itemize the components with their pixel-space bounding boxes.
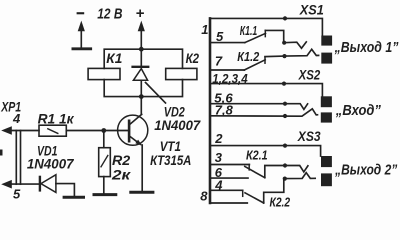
svg-text:1: 1 <box>201 22 208 37</box>
node base junction <box>101 128 106 133</box>
jack XS1 upper spring <box>284 42 306 48</box>
svg-text:ХS2: ХS2 <box>298 66 321 82</box>
svg-text:1N4007: 1N4007 <box>154 117 201 133</box>
wire relay top rail <box>104 49 182 68</box>
wire pin4 to R1 <box>11 130 40 132</box>
svg-text:К2.1: К2.1 <box>246 148 268 163</box>
plus terminal arrow <box>140 30 142 50</box>
pin 8 line <box>210 202 247 204</box>
wire collector <box>140 97 142 115</box>
svg-text:К2.2: К2.2 <box>270 194 291 208</box>
resistor R2 <box>103 131 105 148</box>
svg-text:1N4007: 1N4007 <box>27 155 75 171</box>
scan speck left edge <box>0 150 3 156</box>
wire emitter <box>141 145 143 191</box>
svg-text:„Выход 2”: „Выход 2” <box>334 163 398 179</box>
svg-text:R1 1к: R1 1к <box>38 111 75 127</box>
relay coil K2 <box>166 68 197 79</box>
jack XS2 upper spring <box>210 104 308 110</box>
svg-text:12 В: 12 В <box>97 6 122 23</box>
svg-text:7: 7 <box>215 54 223 69</box>
resistor R1 <box>39 125 66 136</box>
node top (+) junction <box>139 47 144 52</box>
svg-text:2: 2 <box>214 131 223 146</box>
wire VD1 to ground <box>56 184 75 196</box>
jack XS3 lower spring <box>285 173 315 179</box>
power label minus <box>77 12 85 14</box>
svg-text:5: 5 <box>216 29 224 44</box>
svg-text:„Выход 1”: „Выход 1” <box>334 40 399 56</box>
diode VD1 <box>39 177 41 191</box>
node collector junction <box>139 94 144 99</box>
wire relay bottom rail <box>104 80 182 97</box>
wire line 1 to XS1 <box>210 18 322 35</box>
svg-text:5: 5 <box>13 187 21 202</box>
svg-text:+: + <box>136 5 145 22</box>
leader line VD2 <box>146 83 166 104</box>
svg-text:„Вход”: „Вход” <box>335 103 382 119</box>
minus terminal arrow <box>80 30 82 48</box>
svg-text:4: 4 <box>12 111 21 126</box>
diode VD2 <box>140 49 142 66</box>
svg-text:К2: К2 <box>186 50 200 66</box>
svg-text:8: 8 <box>200 189 208 204</box>
svg-text:ХS3: ХS3 <box>297 128 321 144</box>
wire R1 to base <box>66 130 128 132</box>
wire R2 to ground <box>103 177 105 194</box>
transistor VT1 <box>118 115 148 145</box>
svg-text:3: 3 <box>215 150 223 165</box>
jack XS2 lower spring <box>210 109 318 116</box>
wire pin5 to VD1 <box>11 183 39 185</box>
connector bus XS group <box>209 18 212 203</box>
svg-text:К1: К1 <box>106 50 122 66</box>
svg-text:КТ315А: КТ315А <box>150 152 191 168</box>
connector body lines <box>15 131 17 185</box>
svg-text:2к: 2к <box>111 166 132 182</box>
svg-text:К1.1: К1.1 <box>240 23 257 38</box>
ground R2 <box>94 193 116 196</box>
svg-text:ХS1: ХS1 <box>299 1 324 17</box>
jack XS1 lower spring <box>265 49 319 56</box>
relay coil K1 <box>88 68 120 79</box>
ground emitter <box>131 191 153 194</box>
svg-text:К1.2: К1.2 <box>237 49 260 64</box>
ground VD1 <box>64 196 83 199</box>
